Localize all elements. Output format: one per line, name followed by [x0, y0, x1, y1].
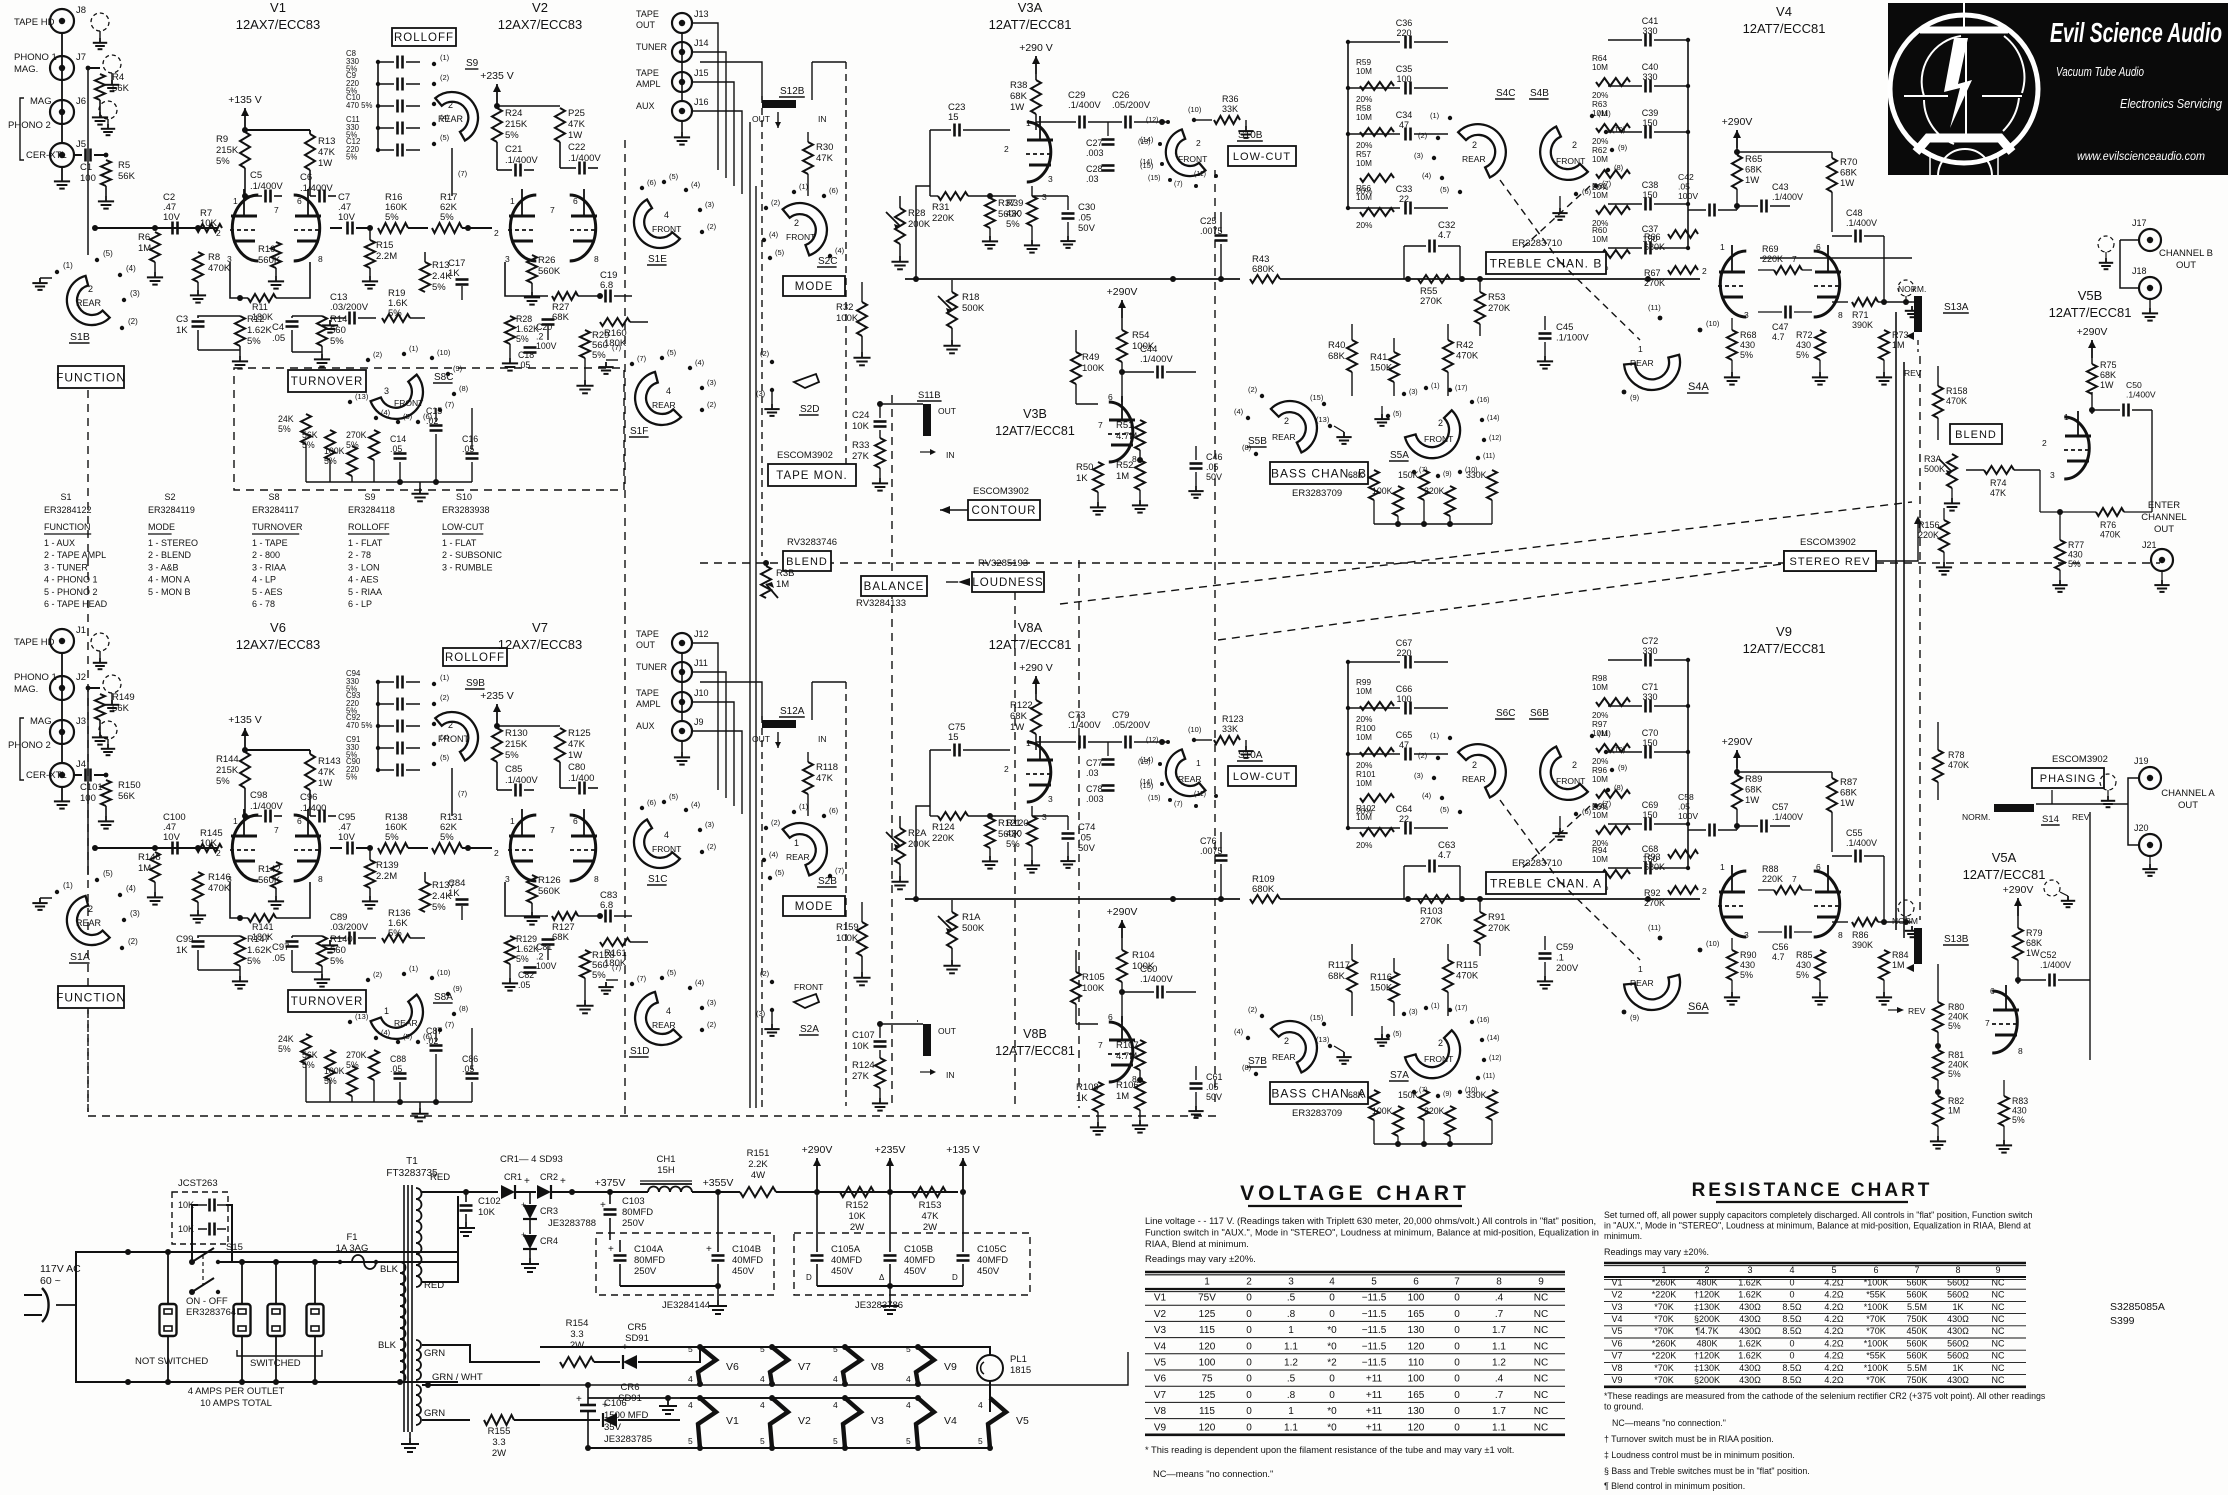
svg-text:12AX7/ECC83: 12AX7/ECC83: [498, 637, 583, 652]
resistor R130 [A]: [492, 728, 502, 762]
svg-text:6: 6: [1816, 242, 1821, 252]
svg-text:1: 1: [794, 838, 799, 848]
svg-text:C106: C106: [604, 1398, 627, 1409]
capacitor C102: [465, 1192, 467, 1202]
svg-text:SWITCHED: SWITCHED: [250, 1358, 301, 1369]
svg-text:*100K: *100K: [1864, 1302, 1889, 1312]
svg-text:270K: 270K: [1420, 916, 1443, 927]
svg-text:5%: 5%: [505, 130, 519, 141]
svg-text:0: 0: [1246, 1422, 1252, 1433]
svg-text:−11.5: −11.5: [1362, 1341, 1387, 1352]
svg-text:7: 7: [1985, 1018, 1990, 1028]
svg-text:6: 6: [573, 816, 578, 826]
capacitor C99 [A]: [198, 936, 240, 938]
svg-text:RIAA, Blend at minimum.: RIAA, Blend at minimum.: [1145, 1239, 1249, 1249]
svg-text:R129: R129: [516, 934, 537, 944]
capacitor C84 [A]: [456, 898, 469, 901]
svg-text:(10): (10): [437, 348, 451, 357]
svg-text:(4): (4): [769, 230, 779, 239]
svg-text:(7): (7): [612, 343, 622, 352]
svg-text:*These readings are measured f: *These readings are measured from the ca…: [1604, 1391, 2046, 1401]
resistor R124 [A]: [938, 812, 968, 820]
main bus wire [B]: [905, 278, 1240, 280]
resistor R52 [B]: [1135, 460, 1145, 490]
capacitor C25 [B]: [1215, 234, 1228, 237]
resistor R9 [B]: [240, 132, 250, 168]
resistor R89 [A]: [1732, 775, 1742, 809]
resistor R43 [B]: [1250, 275, 1280, 283]
svg-text:5: 5: [760, 1436, 765, 1446]
svg-text:REAR: REAR: [394, 1018, 418, 1028]
resistor P25 [B]: [555, 108, 565, 142]
switch S10B [B]: [1157, 129, 1206, 185]
svg-text:4: 4: [1329, 1277, 1335, 1288]
svg-text:4 - MON A: 4 - MON A: [148, 575, 190, 585]
svg-text:C78: C78: [1086, 784, 1103, 794]
svg-text:(5): (5): [1393, 1031, 1402, 1038]
svg-text:+290V: +290V: [1722, 736, 1753, 748]
svg-text:TAPE: TAPE: [636, 9, 659, 19]
svg-text:12AT7/ECC81: 12AT7/ECC81: [989, 17, 1072, 32]
svg-text:.05: .05: [1078, 213, 1091, 224]
resistor R88 [A]: [1774, 886, 1802, 894]
svg-text:12AX7/ECC83: 12AX7/ECC83: [498, 17, 583, 32]
svg-text:0: 0: [1789, 1351, 1794, 1361]
svg-text:+290V: +290V: [802, 1144, 833, 1156]
svg-text:(4): (4): [1422, 791, 1432, 800]
switch S10A [A]: [1157, 749, 1206, 805]
svg-text:MODE: MODE: [795, 901, 834, 913]
svg-text:430: 430: [1796, 340, 1811, 350]
svg-text:7: 7: [1098, 420, 1103, 430]
svg-text:J9: J9: [694, 717, 704, 727]
svg-text:TURNOVER: TURNOVER: [252, 522, 303, 532]
svg-text:SD91: SD91: [625, 1333, 649, 1344]
line filter box JCST263: [172, 1192, 228, 1244]
resistor R125 [A]: [555, 728, 565, 762]
svg-text:V7: V7: [798, 1361, 811, 1373]
svg-text:(5): (5): [1440, 805, 1450, 814]
svg-text:5: 5: [1831, 1265, 1836, 1275]
svg-text:430Ω: 430Ω: [1947, 1326, 1969, 1336]
diode CR5: [594, 1361, 620, 1363]
svg-text:.1/400V: .1/400V: [2126, 390, 2156, 400]
svg-text:2: 2: [88, 284, 93, 294]
svg-text:100: 100: [1408, 1293, 1425, 1304]
power rail +235V: [889, 1158, 891, 1176]
svg-text:CR5: CR5: [627, 1322, 646, 1333]
svg-text:1.62K: 1.62K: [516, 944, 539, 954]
triode V1 section 1 [B]: [232, 195, 258, 261]
svg-text:S2D: S2D: [800, 404, 819, 415]
resistor R123 [A]: [1196, 739, 1212, 741]
svg-text:.03: .03: [1086, 768, 1099, 778]
rolloff capacitor ladder [A]: [377, 682, 379, 770]
capacitor C107 [A]: [874, 1040, 887, 1043]
svg-text:4: 4: [760, 1374, 765, 1384]
svg-text:560K: 560K: [538, 266, 561, 277]
svg-text:V1: V1: [726, 1415, 739, 1427]
S5A ground [A]: [1389, 1018, 1391, 1026]
svg-text:1 - FLAT: 1 - FLAT: [442, 538, 477, 548]
svg-text:Δ: Δ: [879, 1273, 885, 1282]
svg-text:560K: 560K: [538, 886, 561, 897]
svg-text:1.62K: 1.62K: [1738, 1338, 1762, 1348]
capacitor C24 [B]: [874, 420, 887, 423]
wire HV top: [422, 1191, 466, 1193]
svg-text:430Ω: 430Ω: [1947, 1314, 1969, 1324]
svg-text:*70K: *70K: [1866, 1375, 1886, 1385]
svg-text:FRONT: FRONT: [652, 224, 681, 234]
svg-text:10K: 10K: [478, 1207, 496, 1218]
triode V5B: [2064, 417, 2089, 479]
svg-text:4: 4: [833, 1400, 838, 1410]
svg-text:C64: C64: [1396, 804, 1413, 814]
svg-text:C99: C99: [176, 934, 193, 945]
svg-text:215K: 215K: [505, 739, 528, 750]
svg-text:4: 4: [1789, 1265, 1794, 1275]
svg-text:5%: 5%: [302, 1060, 315, 1070]
svg-text:10M: 10M: [1356, 779, 1372, 788]
svg-text:R156: R156: [1918, 520, 1940, 530]
svg-text:(3): (3): [1414, 151, 1424, 160]
svg-text:2: 2: [2042, 438, 2047, 448]
svg-text:R130: R130: [505, 728, 528, 739]
svg-text:S2B: S2B: [818, 876, 837, 887]
S4 gang dashed diagonal 1 [A]: [1500, 800, 1560, 882]
svg-text:.7: .7: [1495, 1390, 1504, 1401]
svg-text:0: 0: [1246, 1293, 1252, 1304]
jack J15 [B]: [672, 72, 692, 92]
svg-text:7: 7: [274, 825, 279, 835]
svg-text:750K: 750K: [1906, 1314, 1927, 1324]
svg-text:V3A: V3A: [1018, 0, 1043, 15]
svg-text:3: 3: [1048, 794, 1053, 804]
svg-text:VOLTAGE CHART: VOLTAGE CHART: [1240, 1182, 1470, 1205]
capacitor C74 [A]: [1062, 832, 1075, 835]
transformer core: [403, 1185, 405, 1432]
svg-text:5 - AES: 5 - AES: [252, 587, 283, 597]
svg-text:S2C: S2C: [818, 256, 837, 267]
svg-text:(10): (10): [1188, 105, 1202, 114]
switch S11B [B]: [923, 404, 931, 436]
svg-text:10M: 10M: [1356, 193, 1372, 202]
resistor R31 [B]: [938, 192, 968, 200]
resistor R84 [A]: [1879, 950, 1889, 980]
resistor R121 [A]: [985, 818, 995, 848]
svg-text:V3: V3: [1611, 1302, 1622, 1312]
svg-text:(7): (7): [637, 974, 647, 983]
svg-text:47K: 47K: [1990, 488, 2006, 498]
svg-text:R66: R66: [1644, 232, 1661, 242]
svg-text:C61: C61: [1206, 1072, 1223, 1082]
svg-text:† Turnover switch must be in R: † Turnover switch must be in RIAA positi…: [1604, 1434, 1774, 1444]
svg-text:R76: R76: [2100, 520, 2116, 530]
svg-text:(11): (11): [1648, 923, 1661, 932]
resistor R11 [B]: [230, 262, 248, 298]
gang dashed diagonal long: [1060, 502, 1912, 604]
svg-text:68K: 68K: [1010, 91, 1028, 102]
svg-text:R92: R92: [1644, 888, 1661, 898]
svg-text:5%: 5%: [385, 212, 399, 223]
svg-text:2 - BLEND: 2 - BLEND: [148, 550, 192, 560]
svg-text:4.7M: 4.7M: [1116, 1051, 1137, 1062]
svg-text:R26: R26: [538, 255, 555, 266]
S1F contacts [B]: [630, 362, 634, 366]
capacitor C55 [A]: [1854, 850, 1857, 863]
resistor R10 [B]: [271, 242, 281, 268]
svg-text:AMPL: AMPL: [636, 79, 661, 89]
transformer heater winding 1: [416, 1340, 421, 1350]
resistor R28 [B]: [505, 316, 515, 344]
svg-text:C33: C33: [1396, 184, 1413, 194]
svg-text:C103: C103: [622, 1196, 645, 1207]
svg-text:27K: 27K: [852, 451, 870, 462]
capacitor C47 [B]: [1784, 306, 1787, 319]
svg-text:NC—means "no connection.": NC—means "no connection.": [1153, 1469, 1273, 1479]
MODE box [A]: [783, 896, 845, 916]
svg-text:560K: 560K: [1906, 1290, 1927, 1300]
svg-text:R94: R94: [1592, 846, 1607, 855]
jack J8 [B]: [50, 9, 74, 33]
svg-text:(4): (4): [695, 358, 705, 367]
capacitor C80 [A]: [559, 762, 561, 788]
svg-text:20%: 20%: [1592, 91, 1608, 100]
svg-text:100V: 100V: [1678, 191, 1698, 201]
svg-text:*0: *0: [1327, 1406, 1337, 1417]
svg-text:1K: 1K: [1076, 473, 1088, 484]
shield ground 2 [A]: [103, 675, 121, 693]
svg-text:560K: 560K: [1906, 1338, 1927, 1348]
svg-text:1M: 1M: [1116, 1091, 1129, 1102]
svg-text:R79: R79: [2026, 928, 2043, 938]
svg-text:(1): (1): [1430, 111, 1440, 120]
shield ground J17: [2098, 236, 2114, 252]
logo background: [1888, 3, 2228, 175]
svg-text:1: 1: [233, 816, 238, 826]
switch S6B [A]: [1529, 746, 1588, 811]
svg-text:2W: 2W: [570, 1340, 584, 1351]
svg-text:R90: R90: [1740, 950, 1757, 960]
svg-text:(5): (5): [1440, 185, 1450, 194]
svg-text:V3B: V3B: [1023, 407, 1047, 421]
resistor R112 [A]: [1419, 1090, 1429, 1120]
svg-text:2 - 78: 2 - 78: [348, 550, 371, 560]
svg-text:560: 560: [330, 325, 346, 336]
heater filament V1: [698, 1398, 716, 1448]
svg-text:R38: R38: [1010, 80, 1027, 91]
svg-text:TAPE HD: TAPE HD: [14, 17, 55, 28]
svg-text:0: 0: [1246, 1406, 1252, 1417]
capacitor C28 [B]: [1102, 164, 1115, 167]
svg-text:200K: 200K: [908, 839, 931, 850]
svg-text:6.8: 6.8: [600, 900, 613, 911]
svg-text:.003: .003: [1086, 794, 1104, 804]
svg-text:68K: 68K: [1348, 1090, 1364, 1100]
BASS box A [A]: [1270, 1082, 1368, 1104]
svg-text:FRONT: FRONT: [1556, 776, 1585, 786]
gang dashed vertical left: [624, 140, 626, 1116]
svg-text:.1/400V: .1/400V: [505, 775, 538, 786]
svg-text:0: 0: [1454, 1309, 1460, 1320]
svg-text:C70: C70: [1642, 728, 1659, 738]
svg-text:4.2Ω: 4.2Ω: [1824, 1314, 1844, 1324]
svg-text:C14: C14: [390, 434, 406, 444]
svg-text:470K: 470K: [2100, 530, 2121, 540]
svg-text:5.5M: 5.5M: [1907, 1363, 1927, 1373]
svg-text:(4): (4): [126, 264, 136, 273]
svg-text:V9: V9: [1611, 1375, 1622, 1385]
svg-text:(1): (1): [440, 53, 450, 62]
svg-text:215K: 215K: [216, 145, 239, 156]
svg-text:.05: .05: [1206, 462, 1219, 472]
svg-text:in "AUX.", Mode in "STEREO", L: in "AUX.", Mode in "STEREO", Loudness at…: [1604, 1221, 2031, 1231]
svg-text:C15: C15: [426, 406, 442, 416]
svg-text:R100: R100: [1356, 724, 1376, 733]
bass bottom wire [A]: [1374, 1143, 1492, 1145]
svg-text:R8: R8: [208, 252, 220, 263]
svg-text:V2: V2: [1154, 1309, 1167, 1320]
svg-text:J15: J15: [694, 68, 709, 78]
triode V4 section 1 [B]: [1720, 251, 1746, 317]
svg-text:450V: 450V: [831, 1266, 854, 1277]
resistor R149 [A]: [88, 687, 100, 689]
svg-text:MAG: MAG: [30, 716, 52, 727]
jack J1 [A]: [50, 629, 74, 653]
svg-text:470 5%: 470 5%: [346, 101, 373, 110]
svg-text:V8: V8: [1611, 1363, 1622, 1373]
svg-text:R75: R75: [2100, 360, 2117, 370]
svg-text:(4): (4): [1234, 407, 1244, 416]
svg-text:(2): (2): [707, 222, 717, 231]
wire heater mid link: [588, 1397, 918, 1399]
switch S1A [A]: [58, 895, 110, 954]
svg-text:R148: R148: [138, 852, 161, 863]
svg-text:(2): (2): [440, 693, 450, 702]
outlet 2 (switched): [234, 1304, 251, 1336]
capacitor C23 [B]: [953, 124, 956, 137]
svg-text:(9): (9): [453, 984, 463, 993]
svg-text:V9: V9: [1154, 1422, 1167, 1433]
jack J6 [B]: [50, 100, 74, 124]
svg-text:(13): (13): [1138, 139, 1150, 146]
power +290V V4 [B]: [1736, 130, 1738, 148]
svg-text:R151: R151: [747, 1148, 770, 1159]
resistor R48 [B]: [1487, 470, 1497, 500]
diode CR2: [537, 1185, 551, 1199]
svg-text:V2: V2: [798, 1415, 811, 1427]
wire can B common: [817, 1285, 963, 1287]
svg-text:100K: 100K: [836, 933, 859, 944]
svg-text:R49: R49: [1082, 352, 1099, 363]
svg-text:.1/400V: .1/400V: [1068, 720, 1101, 731]
svg-text:(6): (6): [647, 798, 657, 807]
resistor R81: [1933, 1050, 1943, 1080]
svg-text:(7): (7): [445, 1020, 455, 1029]
svg-text:0: 0: [1246, 1390, 1252, 1401]
S10 contacts [B]: [1166, 120, 1170, 124]
svg-text:R88: R88: [1762, 864, 1779, 874]
svg-text:R53: R53: [1488, 292, 1505, 303]
svg-text:JE3283785: JE3283785: [604, 1434, 652, 1445]
resistor R110 [A]: [1487, 1090, 1497, 1120]
svg-text:FRONT: FRONT: [1424, 434, 1453, 444]
svg-text:(2): (2): [771, 818, 781, 827]
capacitor C45 [B]: [1539, 332, 1552, 335]
svg-text:(13): (13): [355, 392, 369, 401]
shield ground 3 [A]: [99, 721, 117, 739]
svg-text:(1): (1): [409, 344, 419, 353]
svg-text:.5: .5: [1287, 1293, 1296, 1304]
svg-text:BALANCE: BALANCE: [864, 581, 925, 593]
svg-text:J19: J19: [2134, 756, 2149, 766]
svg-text:J16: J16: [694, 97, 709, 107]
svg-text:LOUDNESS: LOUDNESS: [972, 577, 1043, 589]
svg-text:.4: .4: [1495, 1293, 1504, 1304]
svg-text:100: 100: [1396, 694, 1411, 704]
svg-text:390K: 390K: [1852, 320, 1873, 330]
svg-text:R9: R9: [216, 134, 228, 145]
svg-text:GRN: GRN: [424, 1348, 445, 1359]
svg-text:R73: R73: [1892, 330, 1909, 340]
svg-text:1.1: 1.1: [1284, 1341, 1298, 1352]
svg-text:C48: C48: [1846, 208, 1863, 218]
svg-text:(4): (4): [126, 884, 136, 893]
svg-text:R158: R158: [1946, 386, 1968, 396]
svg-text:RED: RED: [430, 1172, 450, 1183]
wire HV to CR1: [466, 1191, 498, 1193]
svg-text:V3: V3: [871, 1415, 884, 1427]
TURNOVER box [A]: [288, 990, 366, 1012]
svg-text:C6: C6: [300, 172, 312, 183]
diode CR1: [501, 1185, 515, 1199]
resistor R122 [A]: [1031, 700, 1041, 734]
svg-text:0: 0: [1246, 1374, 1252, 1385]
svg-text:8: 8: [1838, 930, 1843, 940]
svg-text:750K: 750K: [1906, 1375, 1927, 1385]
brace amps: [168, 1368, 315, 1374]
svg-text:R142: R142: [258, 864, 281, 875]
svg-text:C71: C71: [1642, 682, 1659, 692]
resistor R79: [2013, 928, 2023, 960]
svg-text:5%: 5%: [330, 336, 344, 347]
svg-text:R1A: R1A: [962, 912, 981, 923]
resistor R120 [A]: [1027, 816, 1037, 846]
svg-text:†120K: †120K: [1694, 1351, 1720, 1361]
svg-text:PHONO 2: PHONO 2: [8, 740, 51, 751]
svg-text:PHASING: PHASING: [2040, 773, 2097, 785]
svg-text:R31: R31: [932, 202, 949, 213]
svg-text:1: 1: [1026, 118, 1031, 128]
svg-text:270K: 270K: [1420, 296, 1443, 307]
svg-text:C4: C4: [272, 322, 284, 333]
svg-text:*100K: *100K: [1864, 1363, 1889, 1373]
svg-text:+290V: +290V: [2003, 884, 2034, 896]
svg-text:150: 150: [1642, 190, 1657, 200]
svg-text:C39: C39: [1642, 108, 1659, 118]
svg-text:J2: J2: [76, 672, 86, 683]
svg-text:+290V: +290V: [1107, 286, 1138, 298]
bus to V3A grid [B]: [916, 186, 930, 279]
triode V5A: [1992, 991, 2017, 1053]
svg-text:C38: C38: [1642, 180, 1659, 190]
resistor R23 [B]: [369, 430, 379, 460]
svg-text:100K: 100K: [1372, 1106, 1393, 1116]
svg-text:68K: 68K: [552, 932, 570, 943]
svg-text:430: 430: [1740, 340, 1755, 350]
svg-text:240K: 240K: [1948, 1012, 1969, 1022]
wire heater V5 to lamp: [989, 1412, 991, 1448]
